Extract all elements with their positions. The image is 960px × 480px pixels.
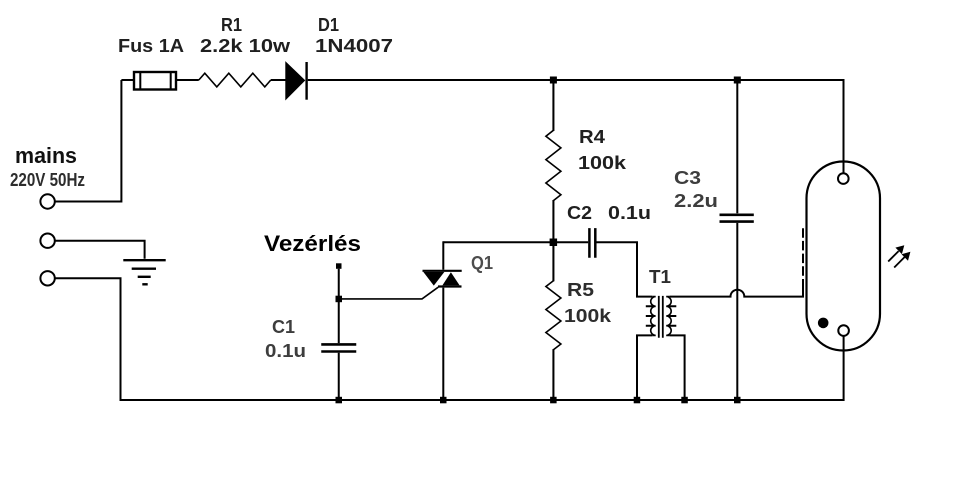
- wire: live terminal to fuse (vertical riser): [55, 80, 122, 202]
- transformer T1 primary winding: [646, 297, 656, 336]
- wire: control terminal down through C1: [338, 269, 340, 400]
- resistor R4 (vertical zigzag): [546, 80, 561, 241]
- junction: R5 bottom on rail: [550, 397, 557, 404]
- fuse Fus 1A: [134, 72, 176, 90]
- junction: C3 top: [734, 77, 741, 84]
- wire: transformer secondary bottom to rail: [670, 335, 685, 400]
- junction: mid node: [550, 239, 558, 247]
- junction: C1 bottom on rail: [336, 397, 343, 404]
- svg-text:C1: C1: [272, 317, 295, 337]
- wire: gate: [339, 287, 438, 299]
- svg-text:D1: D1: [318, 15, 339, 35]
- junction: T1 secondary bottom on rail: [681, 397, 688, 404]
- svg-text:100k: 100k: [564, 306, 612, 326]
- junction: R4 top: [550, 77, 557, 84]
- wire: C2 to transformer primary top: [597, 242, 653, 296]
- svg-text:R4: R4: [579, 127, 605, 147]
- svg-text:Fus 1A: Fus 1A: [118, 36, 184, 56]
- diode D1 1N4007: [286, 62, 307, 100]
- svg-text:Vezérlés: Vezérlés: [264, 231, 361, 256]
- wire: trigger lead with hop over C3 branch: [670, 289, 803, 297]
- flash tube cathode terminal: [838, 325, 849, 336]
- flash tube envelope: [807, 161, 881, 350]
- capacitor C3 branch wires: [736, 80, 738, 400]
- light emission arrow 1: [888, 245, 904, 261]
- flash tube anode terminal: [838, 173, 849, 184]
- wire: top rail from diode to lamp top lead: [308, 80, 844, 173]
- svg-text:0.1u: 0.1u: [608, 203, 651, 223]
- svg-text:T1: T1: [649, 267, 671, 287]
- junction: triac MT1 on rail: [440, 397, 447, 404]
- transformer T1 secondary winding: [666, 297, 676, 336]
- wire: neutral terminal to ground: [55, 241, 145, 259]
- svg-text:2.2k 10w: 2.2k 10w: [200, 36, 291, 56]
- terminal circle: mains neutral: [40, 234, 54, 248]
- junction: C3 bottom on rail: [734, 397, 741, 404]
- terminal circle: mains live: [40, 194, 54, 208]
- trigger electrode (dashed): [802, 226, 804, 289]
- capacitor C2 plates: [589, 228, 595, 258]
- wire: top rail segment before fuse: [121, 79, 134, 81]
- svg-text:R1: R1: [221, 15, 242, 35]
- light emission arrow 2: [894, 252, 910, 268]
- capacitor C1 plates: [321, 344, 356, 351]
- junction: gate tap on control line: [336, 296, 343, 303]
- svg-text:C3: C3: [674, 168, 701, 188]
- svg-text:1N4007: 1N4007: [315, 36, 393, 56]
- svg-text:C2: C2: [567, 203, 592, 223]
- ground: [123, 260, 165, 284]
- resistor R1 (zigzag): [199, 73, 271, 87]
- wire: resistor to diode: [271, 79, 286, 81]
- terminal circle: mains earth: [40, 271, 54, 285]
- wire: bottom terminal + bottom rail + lamp bottom lead: [55, 278, 844, 400]
- resistor R5 (vertical zigzag): [546, 242, 561, 400]
- capacitor C3 plates: [720, 215, 754, 222]
- svg-text:2.2u: 2.2u: [674, 191, 718, 211]
- wire: fuse to resistor R1: [176, 79, 199, 81]
- node: Vezerles control terminal: [336, 263, 342, 269]
- svg-text:100k: 100k: [578, 153, 627, 173]
- svg-text:Q1: Q1: [471, 253, 493, 273]
- svg-text:220V 50Hz: 220V 50Hz: [10, 170, 85, 190]
- triac Q1: [423, 241, 462, 400]
- svg-text:mains: mains: [15, 143, 77, 168]
- svg-text:R5: R5: [567, 280, 594, 300]
- junction: T1 primary bottom on rail: [634, 397, 641, 404]
- transformer T1 core: [659, 296, 663, 338]
- wire: transformer primary bottom to rail: [637, 335, 652, 400]
- svg-text:0.1u: 0.1u: [265, 341, 306, 361]
- flash tube cathode dot: [818, 318, 829, 329]
- wire: triac MT2 to mid junction: [443, 241, 588, 243]
